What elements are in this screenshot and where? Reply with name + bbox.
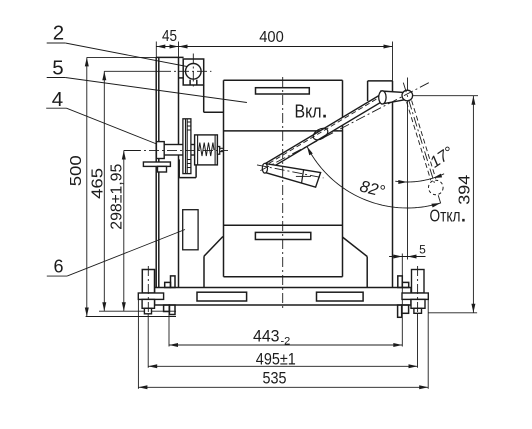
svg-text:394: 394 — [457, 175, 474, 205]
svg-text:400: 400 — [259, 29, 284, 46]
svg-text:495±1: 495±1 — [256, 350, 296, 368]
svg-text:4: 4 — [52, 88, 63, 111]
svg-text:-2: -2 — [281, 335, 291, 347]
svg-text:.: . — [461, 206, 466, 226]
svg-text:Откл: Откл — [430, 206, 461, 226]
svg-text:5: 5 — [419, 243, 426, 257]
svg-text:443: 443 — [253, 328, 280, 346]
svg-text:298±1,95: 298±1,95 — [109, 164, 126, 230]
svg-text:45: 45 — [162, 28, 177, 45]
svg-text:.: . — [322, 101, 327, 122]
svg-text:500: 500 — [68, 155, 85, 186]
svg-text:465: 465 — [90, 168, 107, 199]
svg-text:6: 6 — [53, 256, 63, 276]
svg-text:2: 2 — [53, 22, 64, 45]
svg-text:Вкл: Вкл — [295, 101, 322, 122]
svg-text:535: 535 — [263, 370, 287, 388]
svg-text:5: 5 — [52, 56, 63, 79]
